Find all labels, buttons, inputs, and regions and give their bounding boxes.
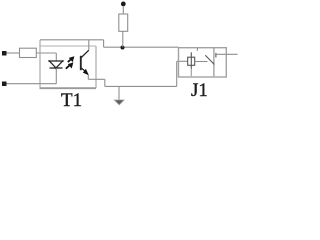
terminal V+ dot <box>121 2 126 7</box>
resistor R2 pull-up <box>119 14 128 31</box>
wire LED anode riser <box>55 53 57 61</box>
ground <box>114 100 124 105</box>
wire LED cathode riser <box>55 68 57 84</box>
phototransistor Q (in T1) <box>81 50 89 75</box>
wire emitter riser <box>87 75 89 80</box>
wire top rail <box>40 39 104 41</box>
wire riser to J1 <box>176 61 178 86</box>
pin stub (J1 top) <box>196 48 198 51</box>
label J1 <box>191 80 208 102</box>
wire <box>7 52 20 54</box>
wire V+ lead <box>122 7 124 15</box>
connector box J1 <box>179 48 227 77</box>
wire ground tap <box>118 86 120 99</box>
wire collector riser <box>88 40 90 50</box>
optocoupler box T1 <box>40 40 97 88</box>
wire R2 lower lead <box>122 31 124 47</box>
wire step down <box>104 79 106 86</box>
wire drop to mid rail <box>103 40 105 47</box>
jack plug symbol (in J1) <box>188 52 195 68</box>
wire emitter horizontal <box>88 78 105 80</box>
wire output <box>216 53 238 55</box>
LED light arrows <box>66 56 75 68</box>
LED diode <box>48 60 64 69</box>
terminal input 2 <box>2 82 7 87</box>
switch pivot pin (in J1) <box>213 48 215 76</box>
terminal input 1 <box>2 51 7 56</box>
wire return <box>7 83 57 85</box>
switch lever (in J1) <box>205 53 216 65</box>
wire mid rail to J1 <box>104 46 179 48</box>
wire ground rail <box>105 85 177 87</box>
label T1 <box>61 90 82 112</box>
wire coil to switch <box>195 61 208 63</box>
resistor R1 <box>20 48 37 57</box>
node junction dot <box>121 46 125 50</box>
wire stub into J1 <box>177 60 188 62</box>
pin stub (J1 plug to bottom) <box>190 69 192 77</box>
wire <box>37 52 57 54</box>
